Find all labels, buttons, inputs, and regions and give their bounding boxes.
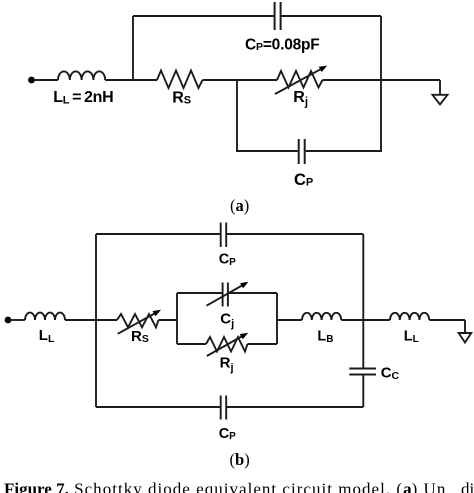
inductor LB (b) xyxy=(302,313,341,320)
wire outer box left (b) xyxy=(95,234,97,407)
wire outer box bottom right (b) xyxy=(227,406,363,408)
wire right riser (a) xyxy=(380,16,382,80)
arrow of variable capacitor Cj (b) xyxy=(207,282,249,306)
inductor LL left (b) xyxy=(25,313,65,320)
svg-text:CP: CP xyxy=(219,252,236,268)
svg-text:LL = 2nH: LL = 2nH xyxy=(53,89,113,107)
resistor Rj (b) xyxy=(206,337,248,352)
wire RS to inner box (b) xyxy=(159,319,178,321)
svg-text:LL: LL xyxy=(39,327,55,345)
wire inner box bottom left (b) xyxy=(177,343,206,345)
wire top rail right (a) xyxy=(281,15,381,17)
capacitor CP bottom (b) xyxy=(221,396,227,420)
wire inner box bottom right (a) xyxy=(306,150,382,152)
wire outer box top left (b) xyxy=(96,233,220,235)
wire LL to RS (a) xyxy=(105,79,157,81)
wire inner box left riser (a) xyxy=(236,80,238,151)
wire inner box bottom right (b) xyxy=(248,343,278,345)
wire inner box right (b) xyxy=(276,293,278,344)
wire outer box right upper (b) xyxy=(362,234,364,368)
wire top rail left (a) xyxy=(133,15,274,17)
node input terminal (b) xyxy=(5,317,12,324)
wire outer box top right (b) xyxy=(227,233,363,235)
svg-text:Rj: Rj xyxy=(220,355,234,374)
svg-text:CC: CC xyxy=(381,365,400,382)
wire inner box left (b) xyxy=(176,293,178,344)
wire Rj to ground (a) xyxy=(323,79,441,81)
svg-text:CP: CP xyxy=(294,171,313,189)
svg-text:RS: RS xyxy=(131,328,149,345)
svg-text:(a): (a) xyxy=(230,196,249,215)
wire outer box right lower (b) xyxy=(362,376,364,408)
svg-text:LL: LL xyxy=(404,329,419,345)
wire inner box top right (b) xyxy=(229,292,278,294)
svg-text:CP=0.08pF: CP=0.08pF xyxy=(245,36,320,53)
ground (b) xyxy=(459,320,472,343)
wire input to LL (a) xyxy=(33,79,58,81)
wire LL to RS (b) xyxy=(65,319,117,321)
wire LB to LL (b) xyxy=(341,319,390,321)
inductor LL (a) xyxy=(58,71,105,80)
svg-text:Cj: Cj xyxy=(220,311,234,330)
wire outer box bottom left (b) xyxy=(96,406,220,408)
resistor RS (a) xyxy=(157,71,203,89)
inductor LL right (b) xyxy=(390,313,429,320)
resistor RS (b) xyxy=(117,314,159,327)
svg-text:RS: RS xyxy=(172,89,191,106)
capacitor CP top (a) xyxy=(275,2,281,30)
arrow of variable resistor RS (b) xyxy=(118,310,161,334)
capacitor CP top (b) xyxy=(221,223,227,248)
wire inner box right riser (a) xyxy=(380,80,382,151)
arrow of variable resistor Rj (a) xyxy=(275,66,327,94)
wire input to LL (b) xyxy=(9,319,25,321)
svg-text:(b): (b) xyxy=(230,450,250,469)
capacitor Cj (b) xyxy=(223,283,228,307)
wire inner box to LB (b) xyxy=(277,319,302,321)
node input terminal (a) xyxy=(28,77,35,84)
svg-text:LB: LB xyxy=(317,329,333,345)
svg-text:Rj: Rj xyxy=(293,89,308,109)
wire inner box top left (b) xyxy=(177,292,222,294)
capacitor CC (b) xyxy=(349,369,376,375)
svg-text:CP: CP xyxy=(219,426,236,442)
ground (a) xyxy=(433,80,448,105)
wire LL to ground (b) xyxy=(429,319,465,321)
capacitor CP bottom (a) xyxy=(299,139,305,164)
resistor Rj (a) xyxy=(277,71,323,88)
svg-text:Figure 7. Schottky diode equiv: Figure 7. Schottky diode equivalent circ… xyxy=(4,479,474,493)
node junction riser (a) xyxy=(132,16,134,80)
wire RS to Rj (a) xyxy=(203,79,278,81)
wire inner box bottom left (a) xyxy=(236,150,298,152)
arrow of variable resistor Rj (b) xyxy=(207,333,248,356)
